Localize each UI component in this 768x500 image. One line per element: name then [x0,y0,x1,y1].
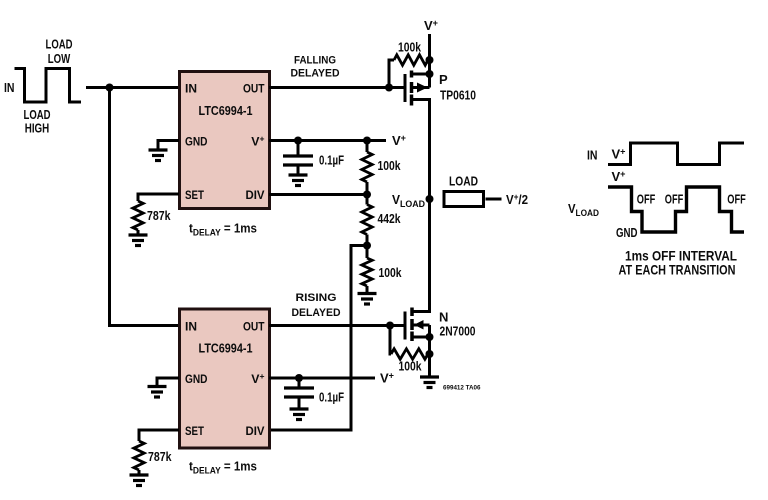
svg-text:V+: V+ [612,147,626,162]
wire V+ rail to Q1 source [428,34,431,88]
capacitor C1 0.1uF [283,141,313,166]
wire U2 V+ line [269,377,375,380]
svg-text:0.1µF: 0.1µF [319,153,344,168]
capacitor C2 0.1uF [284,378,314,397]
resistor R2 787k [133,201,143,230]
label RISING DELAYED [292,292,341,319]
resistor LOAD [444,192,484,207]
wire U2 SET to R6 [139,430,179,441]
svg-text:787k: 787k [148,449,172,464]
svg-text:tDELAY = 1ms: tDELAY = 1ms [189,459,257,477]
svg-text:N: N [439,310,448,325]
resistor R7 100k (Q2 pulldown) [391,349,428,359]
ground Q2 source [420,377,439,388]
wire C1 to ground [297,165,300,175]
wire U1 GND to ground [158,141,179,151]
label FALLING DELAYED [291,55,340,80]
svg-text:GND: GND [185,135,208,149]
wire R7 left lead to gate [390,326,391,355]
wire lower tap to R5 [366,246,369,259]
svg-text:SET: SET [185,188,204,202]
wire Q1 drain to Q2 drain rail [428,100,431,311]
svg-text:0.1µF: 0.1µF [319,390,344,405]
node R1/V+ junction [426,56,434,64]
svg-text:DIV: DIV [246,188,266,202]
node input junction [106,84,114,92]
svg-text:HIGH: HIGH [25,122,50,136]
svg-text:100k: 100k [378,158,402,173]
resistor R3 100k (divider top) [362,152,372,182]
wire divider top lead [366,141,369,153]
waveform IN trace (right diagram) [608,143,744,165]
svg-text:TP0610: TP0610 [440,88,476,103]
transistor Q1 TP0610 P-MOSFET [405,71,430,106]
svg-text:V+/2: V+/2 [506,192,528,207]
node Q2 source junction [426,333,434,341]
input waveform IN [15,69,82,103]
node Q1 gate feedback junction [385,84,393,92]
svg-text:VLOAD: VLOAD [568,201,599,219]
svg-text:FALLING: FALLING [294,55,336,67]
node R7 junction [426,350,434,358]
svg-text:V+: V+ [392,133,406,148]
svg-text:LTC6994-1: LTC6994-1 [199,104,253,118]
svg-text:2N7000: 2N7000 [440,324,476,339]
wire left bus to U2 IN [110,88,179,326]
svg-text:IN: IN [4,80,15,95]
svg-text:LTC6994-1: LTC6994-1 [199,342,253,356]
svg-text:OUT: OUT [243,82,265,96]
svg-text:787k: 787k [147,208,171,223]
svg-text:V+: V+ [424,18,438,33]
wire R2 to ground [137,230,140,235]
wire DIV tap to R4 [366,195,369,205]
waveform VLOAD trace (right diagram) [608,187,744,232]
svg-text:IN: IN [185,82,197,96]
svg-text:IN: IN [587,148,598,163]
svg-text:OFF: OFF [665,193,684,207]
node C2 junction [295,374,303,382]
node Q1 source junction [426,70,434,78]
svg-text:LOAD: LOAD [449,175,478,189]
svg-text:1ms OFF INTERVAL: 1ms OFF INTERVAL [625,249,737,264]
resistor R1 100k (Q1 pullup) [394,55,428,65]
svg-text:SET: SET [185,424,204,438]
svg-text:OUT: OUT [243,320,265,334]
transistor Q2 2N7000 N-MOSFET [405,306,430,341]
svg-text:442k: 442k [378,211,402,226]
wire U1 SET to R2 [138,194,179,201]
label LOAD HIGH [24,108,51,136]
node divider top junction [363,137,371,145]
wire Q2 source to ground [428,325,431,377]
svg-text:100k: 100k [399,359,423,374]
ground R2 [129,235,148,246]
svg-text:GND: GND [616,225,638,240]
svg-text:LOW: LOW [48,52,71,66]
svg-text:GND: GND [185,372,208,386]
svg-text:LOAD: LOAD [46,38,73,52]
node divider DIV tap [363,191,371,199]
ground U2 GND [148,387,167,398]
wire R1 left lead to gate [389,60,394,88]
svg-text:P: P [439,72,448,87]
wire U1 V+ line [269,139,386,142]
node VLOAD junction [426,195,434,203]
resistor R5 100k (divider bottom) [362,258,372,286]
wire R6 to ground [138,470,141,475]
svg-text:100k: 100k [379,265,403,280]
resistor R6 787k [134,441,144,470]
ground U1 GND [149,150,168,161]
svg-text:IN: IN [185,320,197,334]
wire U2 OUT to Q2 gate [269,324,404,327]
svg-text:RISING: RISING [296,292,337,304]
ground C2 [290,409,309,420]
ground divider [358,294,377,305]
svg-text:tDELAY = 1ms: tDELAY = 1ms [189,221,257,239]
wire U1 OUT to Q1 gate [269,86,404,89]
svg-text:100k: 100k [398,40,422,55]
wire C2 to ground [298,397,301,409]
svg-text:OFF: OFF [727,193,746,207]
ground R6 [130,475,149,486]
wire U2 GND to ground [157,378,179,387]
IC U1 LTC6994-1 [180,72,270,209]
svg-text:DIV: DIV [246,424,266,438]
svg-text:V+: V+ [380,371,394,386]
wire U1 DIV to divider [269,193,367,196]
ground C1 [289,175,308,186]
svg-text:VLOAD: VLOAD [392,192,425,210]
wire LOAD to V+/2 [486,198,502,201]
svg-text:699412 TA06: 699412 TA06 [443,385,481,392]
wire R3 to DIV tap [366,182,369,195]
label LOAD LOW [46,38,73,67]
svg-text:OFF: OFF [637,193,656,207]
resistor R4 442k [362,205,372,235]
wire R5 to ground [366,286,369,294]
svg-text:AT EACH TRANSITION: AT EACH TRANSITION [619,263,736,278]
IC U2 LTC6994-1 [180,309,270,448]
wire lower tap to U2 DIV [269,246,367,431]
node C1 junction [294,137,302,145]
wire IN to U1 [86,86,178,89]
node Q2 gate pulldown junction [386,322,394,330]
svg-text:LOAD: LOAD [24,108,51,122]
svg-text:DELAYED: DELAYED [292,307,341,319]
svg-text:DELAYED: DELAYED [291,68,340,80]
wire R4 to lower tap [366,235,369,246]
node divider lower tap [363,242,371,250]
svg-text:V+: V+ [612,169,626,184]
